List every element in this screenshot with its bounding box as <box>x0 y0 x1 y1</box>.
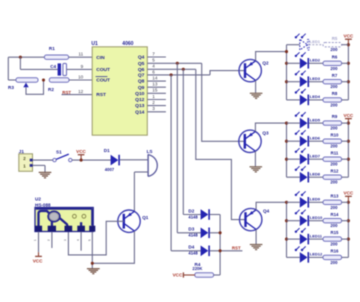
node U2 pin5 junction <box>91 262 94 265</box>
diode D2 <box>188 208 210 220</box>
capacitor C4 <box>50 63 66 75</box>
transistor Q3 <box>239 130 269 152</box>
svg-text:200: 200 <box>330 66 338 71</box>
svg-text:S1: S1 <box>56 150 62 155</box>
svg-text:4148: 4148 <box>188 251 198 256</box>
node VCC bus junction <box>347 140 350 143</box>
svg-text:200: 200 <box>330 223 338 228</box>
LED LED4 <box>295 89 321 105</box>
node VCC bus junction <box>347 122 350 125</box>
wire D2 anode <box>183 214 200 216</box>
node RST junction <box>219 231 222 234</box>
svg-text:CIN: CIN <box>96 55 105 61</box>
node Q6 junction <box>182 68 185 71</box>
svg-text:200: 200 <box>330 144 338 149</box>
wire <box>287 81 300 83</box>
node VCC bus junction <box>347 158 350 161</box>
wire Q3 collector <box>255 123 286 131</box>
wire <box>287 256 300 258</box>
transistor Q4 <box>240 208 270 230</box>
wire <box>309 158 323 160</box>
svg-text:2: 2 <box>152 100 155 105</box>
svg-text:4: 4 <box>76 239 80 241</box>
microphone module U2 HS-088 <box>35 197 95 232</box>
wire <box>8 56 44 58</box>
speaker LS <box>147 149 158 177</box>
resistor R13 200 <box>323 193 342 209</box>
LED LED6 <box>295 130 321 146</box>
LED LED11 <box>295 228 323 244</box>
wire LED bus <box>286 202 288 257</box>
svg-text:4060: 4060 <box>122 41 133 47</box>
svg-text:15: 15 <box>152 88 158 93</box>
svg-text:200: 200 <box>330 180 338 185</box>
svg-text:LED11: LED11 <box>310 233 323 238</box>
svg-text:LED5: LED5 <box>310 117 321 122</box>
node bus junction <box>285 62 288 65</box>
svg-text:COUT: COUT <box>96 67 110 73</box>
svg-text:R16: R16 <box>331 249 339 254</box>
wire U2 pin1 <box>38 232 40 253</box>
node VCC bus junction <box>347 219 350 222</box>
node R3-R2 junction <box>42 78 45 81</box>
svg-text:9: 9 <box>81 64 84 69</box>
svg-text:4007: 4007 <box>105 167 115 172</box>
svg-text:Q10: Q10 <box>135 91 145 97</box>
node bus junction <box>285 50 288 53</box>
node VCC bus junction <box>347 238 350 241</box>
svg-text:2: 2 <box>47 239 51 241</box>
wire R3 wiper <box>26 80 44 94</box>
wire <box>72 159 111 161</box>
wire VCC bus <box>347 45 349 100</box>
wire VCC bus <box>347 123 349 177</box>
resistor R15 200 <box>323 230 342 246</box>
node bus junction <box>285 122 288 125</box>
node bus junction <box>285 201 288 204</box>
svg-text:5: 5 <box>152 58 155 63</box>
node bus junction <box>285 140 288 143</box>
wire <box>287 140 300 142</box>
wire D4 anode <box>171 250 201 252</box>
wire <box>309 220 323 222</box>
node VCC bus junction <box>347 80 350 83</box>
node RST junction 2 <box>219 249 222 252</box>
svg-text:13: 13 <box>152 82 158 87</box>
node VCC bus junction <box>347 62 350 65</box>
wire Q4 emitter <box>255 229 257 244</box>
svg-text:VCC: VCC <box>173 272 183 277</box>
LED LED10 <box>295 210 323 226</box>
wire pin Q8 <box>147 80 166 82</box>
svg-text:3: 3 <box>152 106 155 111</box>
svg-text:D4: D4 <box>188 245 194 250</box>
resistor R16 200 <box>323 249 342 265</box>
node VCC bus junction <box>347 43 350 46</box>
svg-text:R7: R7 <box>332 73 338 78</box>
resistor R8 200 <box>323 91 342 107</box>
svg-text:D3: D3 <box>188 227 194 232</box>
wire <box>7 57 9 80</box>
wire <box>309 81 323 83</box>
wire pin Q9 <box>147 86 166 88</box>
svg-text:5: 5 <box>87 239 91 241</box>
svg-text:Q8: Q8 <box>138 79 145 85</box>
LED LED12 <box>295 246 323 262</box>
svg-text:Q1: Q1 <box>142 215 149 220</box>
ground <box>87 269 100 274</box>
wire <box>309 201 323 203</box>
svg-text:200: 200 <box>330 205 338 210</box>
diode D1 <box>104 148 120 172</box>
svg-text:LED7: LED7 <box>310 153 321 158</box>
svg-text:3: 3 <box>63 239 67 241</box>
wire U2 pin4 <box>80 232 82 251</box>
svg-text:R9: R9 <box>332 114 338 119</box>
svg-text:200: 200 <box>330 84 338 89</box>
svg-text:R12: R12 <box>331 168 339 173</box>
wire <box>287 122 300 124</box>
svg-text:R11: R11 <box>331 150 339 155</box>
LED LED1 <box>295 34 321 50</box>
svg-text:VCC: VCC <box>344 113 354 118</box>
resistor R11 200 <box>323 150 342 166</box>
svg-text:Q5: Q5 <box>138 61 145 67</box>
svg-text:200: 200 <box>330 47 338 52</box>
svg-text:4148: 4148 <box>188 214 198 219</box>
wire <box>8 79 16 81</box>
wire Q2 emitter <box>255 80 257 93</box>
power VCC <box>344 191 354 203</box>
svg-text:LED1: LED1 <box>310 39 321 44</box>
wire U2 pin5 <box>91 232 93 269</box>
svg-text:LED2: LED2 <box>310 58 321 63</box>
svg-text:LED6: LED6 <box>310 135 321 140</box>
wire <box>287 220 300 222</box>
wire <box>342 220 349 222</box>
wire <box>342 158 349 160</box>
wire Q2 collector <box>256 52 287 61</box>
resistor R9 200 <box>323 114 342 130</box>
svg-text:200: 200 <box>330 162 338 167</box>
svg-text:11: 11 <box>78 52 83 57</box>
wire Q3 emitter <box>254 151 256 166</box>
wire Q1 emitter <box>92 231 134 263</box>
wire <box>287 201 300 203</box>
wire <box>342 122 349 124</box>
wire <box>342 62 349 64</box>
svg-text:Q13: Q13 <box>135 103 145 109</box>
svg-text:200: 200 <box>330 242 338 247</box>
wire U2 pin2 <box>51 232 53 248</box>
svg-text:R15: R15 <box>331 230 339 235</box>
svg-text:R13: R13 <box>331 193 339 198</box>
wire pin Q12 <box>147 99 166 101</box>
wire D3 anode <box>177 232 200 234</box>
resistor R12 200 <box>323 168 342 184</box>
svg-text:VCC: VCC <box>33 259 43 264</box>
svg-text:R3: R3 <box>8 85 14 90</box>
svg-text:D1: D1 <box>104 148 110 153</box>
power VCC tap U2 <box>33 252 43 263</box>
wire <box>69 79 92 81</box>
svg-text:R8: R8 <box>332 91 338 96</box>
wire <box>342 99 349 101</box>
wire <box>287 238 300 240</box>
wire <box>309 256 323 258</box>
diode D4 <box>188 245 210 257</box>
wire Q4 collector <box>256 202 286 210</box>
svg-text:Q9: Q9 <box>138 85 145 91</box>
svg-text:Q12: Q12 <box>135 97 145 103</box>
svg-text:U1: U1 <box>91 41 98 47</box>
wire <box>309 62 323 64</box>
net RST label <box>232 245 241 250</box>
LED LED5 <box>295 112 321 128</box>
power VCC tap <box>76 149 86 160</box>
svg-text:RST: RST <box>96 92 106 98</box>
wire <box>309 99 323 101</box>
svg-text:VCC: VCC <box>76 149 86 154</box>
svg-text:220K: 220K <box>192 266 202 271</box>
svg-text:200: 200 <box>330 260 338 265</box>
resistor R4 220K <box>192 262 213 277</box>
wire <box>120 159 148 161</box>
wire D4 cathode to RST <box>210 250 243 252</box>
ground <box>250 167 263 172</box>
node VCC junction <box>80 159 83 162</box>
diode D3 <box>188 227 210 239</box>
svg-text:12: 12 <box>78 89 84 94</box>
svg-text:R14: R14 <box>331 212 339 217</box>
power VCC <box>344 34 354 45</box>
svg-text:VCC: VCC <box>344 34 354 39</box>
LED LED2 <box>295 52 321 68</box>
wire D2 cathode <box>210 215 220 276</box>
wire net Q6 to Q4 base <box>196 69 246 219</box>
wire <box>33 165 46 172</box>
transistor Q2 <box>239 59 269 81</box>
wire <box>287 99 300 101</box>
wire <box>214 274 221 276</box>
wire <box>342 256 349 258</box>
svg-text:R6: R6 <box>332 54 338 59</box>
svg-text:R1: R1 <box>49 46 55 51</box>
svg-text:1: 1 <box>152 94 155 99</box>
resistor R5 200 <box>323 36 342 52</box>
wire net Q7 to Q2 base <box>210 71 245 75</box>
wire <box>342 81 349 83</box>
wire <box>309 44 323 46</box>
svg-text:7: 7 <box>152 51 155 56</box>
ground <box>39 172 52 177</box>
svg-text:Q6: Q6 <box>138 67 145 73</box>
resistor R2 <box>48 78 69 92</box>
wire net Q5 to Q3 base <box>202 63 245 141</box>
svg-text:Q4: Q4 <box>138 55 145 61</box>
wire <box>20 57 57 69</box>
switch S1 <box>53 150 72 162</box>
svg-text:Q4: Q4 <box>263 208 270 213</box>
svg-text:J1: J1 <box>19 149 25 154</box>
svg-text:LS: LS <box>147 149 153 154</box>
svg-text:4148: 4148 <box>188 233 198 238</box>
wire <box>309 140 323 142</box>
node R1-C4-R3 junction <box>19 56 22 59</box>
net RST <box>62 90 93 95</box>
resistor R1 <box>44 46 68 59</box>
ground <box>250 245 263 250</box>
wire VCC bus <box>347 202 349 257</box>
svg-text:C4: C4 <box>50 64 56 69</box>
LED LED7 <box>295 148 321 164</box>
wire <box>342 140 349 142</box>
wire <box>309 238 323 240</box>
svg-text:Q14: Q14 <box>135 109 145 115</box>
wire LED bus <box>286 123 288 177</box>
node bus junction <box>285 158 288 161</box>
svg-text:10: 10 <box>78 74 84 79</box>
wire <box>342 201 349 203</box>
svg-text:LED12: LED12 <box>310 252 323 257</box>
svg-text:HS-088: HS-088 <box>35 202 51 207</box>
op-amp U1 4060 counter IC <box>78 41 158 135</box>
svg-text:LED4: LED4 <box>310 94 321 99</box>
wire Q1 base <box>68 221 123 255</box>
connector J1 <box>19 149 33 171</box>
wire <box>342 176 349 178</box>
svg-text:6: 6 <box>152 69 155 74</box>
wire net Q6 <box>147 68 196 70</box>
wire <box>287 62 300 64</box>
wire net Q5 <box>147 62 201 64</box>
wire net Q6 to D2 <box>182 69 184 214</box>
power VCC <box>344 113 354 123</box>
wire <box>342 44 349 46</box>
LED LED8 <box>295 166 321 182</box>
svg-text:200: 200 <box>330 102 338 107</box>
wire <box>67 68 93 70</box>
wire pin Q13 <box>147 105 166 107</box>
node bus junction <box>285 238 288 241</box>
resistor R14 200 <box>323 212 342 228</box>
svg-text:14: 14 <box>152 76 158 81</box>
wire <box>69 56 93 58</box>
svg-text:LED8: LED8 <box>310 171 321 176</box>
svg-text:Q3: Q3 <box>262 131 269 136</box>
ground <box>250 93 263 98</box>
svg-text:LED3: LED3 <box>310 76 321 81</box>
svg-text:LED10: LED10 <box>310 215 323 220</box>
svg-text:R10: R10 <box>331 132 339 137</box>
wire <box>309 176 323 178</box>
LED LED9 <box>295 191 321 207</box>
wire D3 cathode <box>210 232 220 234</box>
wire <box>134 172 148 211</box>
svg-text:RST: RST <box>232 245 241 250</box>
wire net Q7 to D4 <box>170 75 172 251</box>
svg-text:R2: R2 <box>48 87 54 92</box>
wire net Q7 <box>147 74 210 76</box>
wire LED bus <box>286 45 288 100</box>
wire pin Q14 <box>147 111 166 113</box>
wire <box>287 158 300 160</box>
node Q7 junction <box>170 73 173 76</box>
LED LED3 <box>295 71 321 87</box>
svg-text:VCC: VCC <box>344 191 354 196</box>
U2 pin labels <box>33 239 91 241</box>
node Q5 junction <box>176 62 179 65</box>
transistor Q1 <box>118 210 149 232</box>
svg-text:1: 1 <box>33 239 37 241</box>
svg-text:200: 200 <box>330 126 338 131</box>
potentiometer R3 <box>8 78 38 90</box>
wire <box>287 44 300 46</box>
wire <box>309 122 323 124</box>
svg-text:4: 4 <box>152 64 155 69</box>
wire pin Q10 <box>147 92 166 94</box>
resistor R7 200 <box>323 73 342 89</box>
wire <box>33 159 53 161</box>
svg-text:COUT: COUT <box>96 78 110 84</box>
resistor R6 200 <box>323 54 342 70</box>
node bus junction <box>285 80 288 83</box>
node VCC bus junction <box>347 201 350 204</box>
svg-text:Q2: Q2 <box>262 60 269 65</box>
wire <box>342 238 349 240</box>
svg-text:R5: R5 <box>332 36 338 41</box>
node bus junction <box>285 219 288 222</box>
wire pin Q4 <box>147 56 166 58</box>
svg-text:LED9: LED9 <box>310 197 321 202</box>
wire <box>287 176 300 178</box>
power VCC tap R4 <box>173 272 195 277</box>
svg-text:Q7: Q7 <box>138 73 145 79</box>
wire net Q5 to D3 <box>176 63 178 233</box>
svg-text:D2: D2 <box>188 208 194 213</box>
svg-text:U2: U2 <box>35 197 41 202</box>
resistor R10 200 <box>323 132 342 148</box>
